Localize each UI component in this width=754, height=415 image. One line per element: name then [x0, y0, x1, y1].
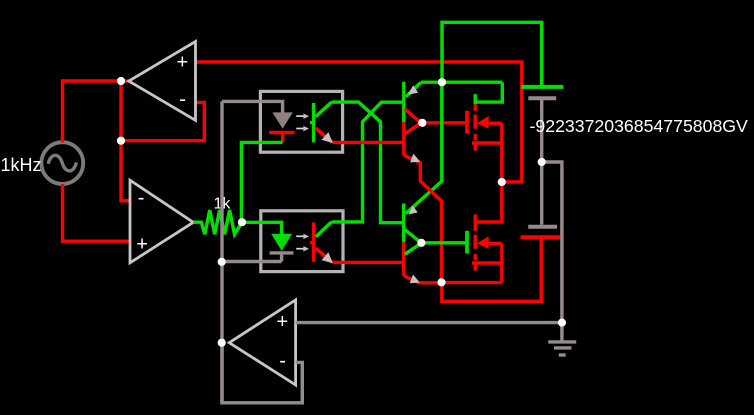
wire Q1 base to M1 gate [422, 121, 465, 124]
wire AC bottom to op-amp U2 + input [63, 184, 131, 241]
op-amp U3 [229, 300, 295, 385]
wire U5 LED cathode to node C [222, 260, 282, 263]
junction half-bridge output node [498, 178, 506, 186]
optocoupler U4 phototransistor [310, 102, 333, 143]
wire bottom rail to battery V3 [442, 239, 541, 302]
MOSFET M1 [467, 94, 502, 150]
junction ground node [558, 319, 566, 327]
wire U1 + input to half-bridge output node [196, 62, 522, 182]
label 1kHz [1, 155, 42, 175]
svg-text:-9223372036854775808GV: -9223372036854775808GV [530, 116, 749, 136]
junction node A [117, 77, 125, 85]
op-amp U1 [129, 42, 196, 121]
svg-text:-: - [138, 187, 145, 209]
junction Q2 base node [417, 239, 425, 247]
op-amp U2 [130, 180, 193, 263]
svg-text:+: + [177, 52, 189, 74]
svg-text:+: + [136, 233, 148, 255]
AC source V1 [41, 142, 83, 184]
wire top supply loop [442, 22, 542, 86]
gray net vertical (opto LED common) [220, 101, 223, 402]
wire Q1 emitter to negative rail [404, 155, 442, 282]
wire U5 collector to Q1 collector (cross) [332, 102, 404, 222]
optocoupler U4 light arrows [296, 114, 309, 132]
svg-text:-: - [279, 350, 286, 372]
junction top rail node [438, 78, 446, 86]
junction node D (U3 output) [218, 339, 226, 347]
wire node B to U2 inverting input [121, 141, 130, 201]
svg-text:+: + [277, 311, 289, 333]
arrow Q2 emitter (upper) [409, 206, 418, 215]
wire U1 output feedback vertical [119, 81, 122, 141]
wire Q2 base to M2 gate [421, 241, 465, 244]
junction node C [218, 258, 226, 266]
junction node B [117, 137, 125, 145]
wire M1 source/bulk to output node [500, 123, 503, 182]
label voltage readout [530, 116, 749, 136]
wire Q1 emitter top rail [421, 80, 502, 83]
transistor Q2 [404, 203, 421, 275]
junction Q1 base node [418, 119, 426, 127]
wire M2 drain from output node [475, 182, 502, 222]
wire U3 + input to ground net [296, 321, 562, 324]
wire U1 inverting input loop [121, 102, 204, 140]
optocoupler U4 box [260, 91, 342, 152]
optocoupler U4 LED anode wire [222, 101, 283, 113]
wire U4 phototransistor emitter to Q1 [333, 141, 404, 144]
resistor R1 1k [193, 210, 242, 234]
wire U4 collector to Q2 collector (cross) [332, 102, 404, 223]
junction node E [238, 218, 246, 226]
junction battery mid node [538, 158, 546, 166]
ground [548, 323, 576, 355]
MOSFET M2 [467, 214, 502, 270]
wire U4 LED cathode to node E [241, 142, 282, 222]
wire U3 feedback loop [222, 343, 302, 403]
optocoupler U5 box [261, 211, 343, 272]
wire Q2 emitter to bottom rail [404, 276, 442, 283]
optocoupler U4 LED D1 [269, 112, 294, 142]
optocoupler U5 light arrows [296, 234, 309, 252]
wire bottom rail to M2 bulk [442, 281, 502, 284]
battery V3 (bottom) [521, 227, 561, 237]
optocoupler U5 LED D2 [270, 234, 294, 262]
wire node E to U5 LED anode [242, 222, 282, 235]
svg-text:1kHz: 1kHz [1, 155, 42, 175]
arrow Q1 emitter [410, 154, 420, 163]
optocoupler U5 phototransistor [310, 222, 333, 263]
junction bottom rail node [437, 278, 445, 286]
svg-text:-: - [179, 88, 186, 110]
wire collector column to Q2 [406, 82, 442, 213]
transistor Q1 [404, 82, 421, 156]
arrow Q2 emitter (lower) [410, 274, 420, 283]
wire M1 drain from top rail [475, 82, 502, 102]
label 1k [214, 196, 232, 213]
wire battery mid node to ground [542, 162, 562, 323]
wire AC top to op-amp U1 output [63, 81, 129, 143]
wire U5 phototransistor emitter to Q2 [333, 261, 404, 264]
wire M2 bulk to bottom rail [500, 243, 503, 282]
battery V2 (top) [521, 87, 563, 225]
